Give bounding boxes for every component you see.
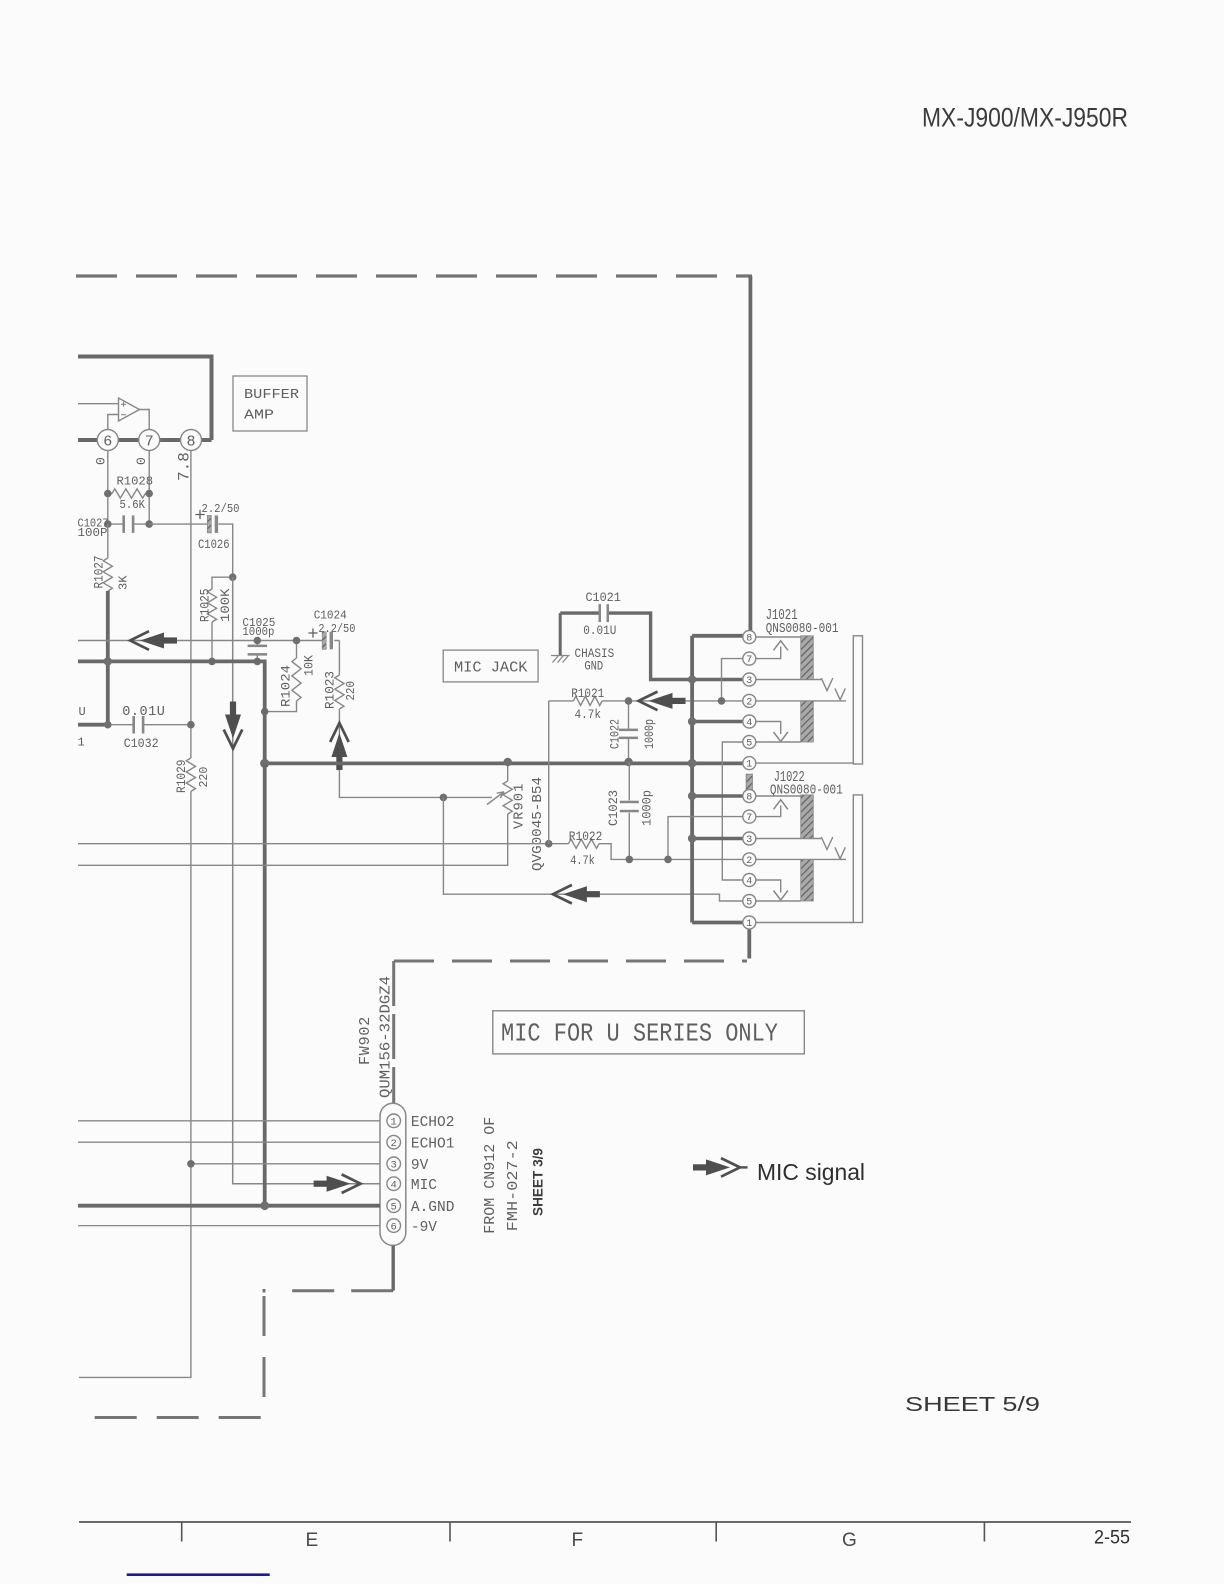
dashed boundary top bbox=[76, 274, 752, 277]
svg-text:R1023: R1023 bbox=[324, 671, 338, 709]
svg-text:R1025: R1025 bbox=[199, 589, 213, 623]
J1021 pin 3 contact line bbox=[756, 679, 822, 681]
svg-text:3: 3 bbox=[746, 835, 752, 846]
wire R1022 input line bbox=[78, 840, 569, 848]
J1021 jack contact bar lower bbox=[801, 701, 814, 742]
svg-text:8: 8 bbox=[746, 634, 752, 645]
wire VR wiper feed bbox=[443, 797, 743, 901]
svg-text:4.7k: 4.7k bbox=[570, 854, 595, 868]
footer page number 2-55 bbox=[1094, 1528, 1130, 1549]
svg-text:2.2/50: 2.2/50 bbox=[202, 502, 240, 516]
connector FW902 labels bbox=[357, 976, 395, 1098]
op-amp U1 (buffer) triangle bbox=[119, 398, 140, 421]
svg-text:0.01U: 0.01U bbox=[583, 624, 616, 638]
footer tick 4 bbox=[983, 1522, 985, 1542]
wire ECHO1 line bbox=[78, 1141, 380, 1143]
J1022 pin 1 contact line bbox=[756, 922, 854, 924]
FW902 pin 3 9V bbox=[387, 1157, 429, 1174]
svg-text:SHEET 5/9: SHEET 5/9 bbox=[905, 1394, 1040, 1416]
svg-text:MX-J900/MX-J950R: MX-J900/MX-J950R bbox=[922, 103, 1128, 133]
svg-text:3: 3 bbox=[391, 1160, 397, 1172]
svg-text:220: 220 bbox=[197, 767, 211, 788]
svg-text:A.GND: A.GND bbox=[411, 1200, 455, 1216]
J1021 pin 1 bbox=[743, 757, 756, 771]
svg-text:MIC FOR U SERIES ONLY: MIC FOR U SERIES ONLY bbox=[501, 1018, 778, 1048]
capacitor C1027 bbox=[78, 515, 154, 540]
svg-text:220: 220 bbox=[344, 681, 358, 701]
capacitor C1022 bbox=[608, 697, 657, 766]
svg-text:C1023: C1023 bbox=[606, 790, 621, 826]
label box MIC FOR U SERIES ONLY bbox=[493, 1011, 805, 1054]
IC pin 8 bbox=[181, 430, 202, 451]
svg-text:4: 4 bbox=[746, 718, 752, 729]
svg-text:-9V: -9V bbox=[411, 1220, 437, 1236]
svg-text:1: 1 bbox=[746, 919, 752, 930]
svg-text:ECHO2: ECHO2 bbox=[411, 1115, 455, 1131]
svg-text:C1022: C1022 bbox=[608, 719, 623, 749]
footer tick 3 bbox=[715, 1522, 717, 1542]
voltage label 0 at pin 6 bbox=[94, 457, 109, 465]
J1022 pin 7 bbox=[743, 810, 756, 824]
J1021 pin 3 rail link bbox=[688, 675, 743, 683]
wire pin 8 down (long vertical) bbox=[190, 451, 192, 759]
wire A.GND thick line bbox=[78, 1201, 380, 1210]
resistor R1024 bbox=[261, 637, 317, 716]
svg-text:7: 7 bbox=[145, 433, 154, 450]
thick vertical to A.GND bbox=[263, 763, 267, 1205]
J1022 jack sleeve bracket bbox=[853, 795, 862, 923]
svg-text:100K: 100K bbox=[219, 588, 233, 622]
resistor R1029 bbox=[175, 758, 211, 793]
svg-text:C1021: C1021 bbox=[586, 591, 621, 605]
signal arrow left (jack to R1021) bbox=[639, 692, 686, 711]
J1021 pin 7 switch arrow bbox=[756, 641, 788, 659]
J1022 jack break marks bbox=[821, 837, 845, 859]
svg-text:7: 7 bbox=[746, 655, 752, 666]
cut label fragment 1 bbox=[78, 736, 85, 750]
svg-text:R1024: R1024 bbox=[280, 665, 294, 707]
svg-text:10K: 10K bbox=[303, 655, 317, 676]
thick wire from top boundary to J1021 pin 8 bbox=[749, 276, 753, 631]
wire C1026 branch down (to MIC pin4) bbox=[233, 577, 380, 1183]
IC pin 6 bbox=[97, 430, 118, 451]
J1022 tie stub (hatched) bbox=[746, 774, 752, 790]
capacitor C1024 (electrolytic 2.2/50) bbox=[308, 609, 355, 650]
svg-text:FW902: FW902 bbox=[357, 1016, 374, 1065]
wire 9V line bbox=[187, 1160, 380, 1168]
J1021 pin 5 contact line bbox=[756, 741, 801, 743]
svg-text:2: 2 bbox=[746, 856, 752, 867]
IC pin 7 bbox=[139, 430, 160, 451]
svg-text:6: 6 bbox=[391, 1221, 397, 1233]
label SHEET 3/9 bbox=[530, 1148, 546, 1216]
label box BUFFER AMP bbox=[233, 376, 307, 431]
J1021 pin 3 bbox=[743, 673, 756, 687]
svg-text:R1029: R1029 bbox=[175, 760, 189, 794]
voltage label 7.8 at pin 8 bbox=[176, 452, 194, 481]
J1022 pin 5 contact line bbox=[756, 900, 801, 902]
svg-text:SHEET 3/9: SHEET 3/9 bbox=[530, 1148, 546, 1216]
svg-text:5: 5 bbox=[746, 898, 752, 909]
FW902 pin 1 ECHO2 bbox=[387, 1114, 455, 1131]
FW902 bottom stub bbox=[392, 1245, 395, 1290]
J1022 pin 3 contact line bbox=[756, 838, 822, 840]
svg-text:VR901: VR901 bbox=[512, 782, 527, 829]
label FROM CN912 OF bbox=[482, 1117, 499, 1234]
J1022 pin 4 switch arrow bbox=[756, 880, 788, 900]
svg-text:1000p: 1000p bbox=[242, 625, 274, 639]
svg-text:0.01U: 0.01U bbox=[122, 705, 165, 720]
J1022 pin 7 switch arrow bbox=[756, 800, 788, 817]
FW902 pin 6 -9V bbox=[387, 1219, 437, 1236]
capacitor C1025 bbox=[242, 616, 275, 665]
svg-text:9V: 9V bbox=[411, 1158, 429, 1174]
dashed boundary right of MIC block bbox=[394, 960, 747, 963]
junction node on MIC return line bbox=[440, 794, 448, 802]
capacitor C1032 bbox=[104, 705, 195, 751]
wire pin 7 down bbox=[148, 451, 150, 525]
dashed boundary below FW902 horizontal bbox=[288, 1289, 393, 1292]
footer tick 2 bbox=[449, 1522, 451, 1542]
FW902 pin 4 MIC bbox=[387, 1177, 437, 1194]
svg-text:1: 1 bbox=[78, 736, 85, 750]
capacitor C1023 bbox=[606, 762, 654, 863]
connector J1021 ground rail bbox=[690, 636, 694, 923]
svg-text:2.2/50: 2.2/50 bbox=[318, 622, 355, 636]
capacitor C1026 (electrolytic 2.2/50) bbox=[149, 502, 239, 577]
resistor R1027 bbox=[93, 524, 131, 591]
J1022 pin 8 bbox=[743, 790, 756, 804]
dashed boundary vertical above FW902 bbox=[392, 961, 395, 1103]
svg-text:1: 1 bbox=[391, 1117, 397, 1129]
svg-text:QVG0045-B54: QVG0045-B54 bbox=[531, 777, 546, 871]
svg-text:QUM156-32DGZ4: QUM156-32DGZ4 bbox=[378, 976, 395, 1098]
svg-text:8: 8 bbox=[186, 433, 195, 450]
svg-text:C1032: C1032 bbox=[124, 737, 159, 751]
svg-text:1000p: 1000p bbox=[639, 790, 654, 826]
dashed boundary vertical left bbox=[263, 1289, 266, 1418]
svg-text:2-55: 2-55 bbox=[1094, 1528, 1130, 1549]
footer zone label F bbox=[572, 1530, 584, 1551]
J1022 jack contact bar upper bbox=[801, 795, 814, 839]
blue underline mark bbox=[127, 1573, 270, 1576]
signal arrow left (MIC to VR) bbox=[553, 885, 600, 904]
svg-text:6: 6 bbox=[103, 433, 112, 450]
signal arrow down (to MIC out) bbox=[224, 702, 243, 749]
svg-text:G: G bbox=[842, 1530, 857, 1551]
resistor R1025 bbox=[199, 573, 237, 665]
svg-text:MIC: MIC bbox=[411, 1178, 437, 1194]
resistor R1023 bbox=[324, 641, 359, 710]
J1021 pin 5 bbox=[743, 736, 756, 750]
legend MIC signal arrow bbox=[693, 1158, 748, 1177]
footer rule bbox=[79, 1521, 1131, 1523]
svg-text:1: 1 bbox=[746, 760, 752, 771]
svg-text:MIC signal: MIC signal bbox=[757, 1159, 865, 1185]
J1022 pin 1 stub to boundary bbox=[747, 929, 751, 959]
J1021 pin 8 bbox=[743, 631, 756, 645]
footer tick 1 bbox=[181, 1522, 183, 1542]
svg-text:GND: GND bbox=[584, 659, 603, 673]
wire op-amp feedback to pin 6 bbox=[108, 415, 119, 430]
svg-text:100P: 100P bbox=[78, 527, 108, 540]
J1021 jack contact bar upper bbox=[801, 636, 814, 680]
wire op-amp input bbox=[78, 403, 119, 405]
svg-text:C1026: C1026 bbox=[198, 538, 230, 552]
signal arrow right (MIC into FW902) bbox=[314, 1174, 361, 1193]
svg-text:ECHO1: ECHO1 bbox=[411, 1136, 455, 1152]
wire R1023 bottom with MIC-signal up arrow bbox=[330, 709, 492, 797]
J1021 jack break marks bbox=[821, 678, 845, 700]
J1021 pin 8 contact line bbox=[756, 636, 801, 638]
svg-text:2: 2 bbox=[391, 1138, 397, 1150]
dashed boundary bottom bbox=[93, 1416, 261, 1419]
wire J1021 pin5 to J1022 pin4 bbox=[722, 742, 743, 880]
svg-text:C1024: C1024 bbox=[314, 609, 347, 623]
J1022 pin 8 contact line bbox=[756, 795, 801, 797]
wire -9V line bbox=[78, 1225, 380, 1227]
wire R1027 bottom thick to buses bbox=[78, 591, 108, 725]
svg-text:QNS0080-001: QNS0080-001 bbox=[766, 622, 839, 637]
J1021 rail/bus junction bbox=[688, 759, 697, 768]
connector J1022 labels bbox=[770, 769, 843, 799]
connector FW902 body bbox=[380, 1103, 406, 1245]
svg-text:0: 0 bbox=[94, 457, 109, 465]
svg-text:R1027: R1027 bbox=[93, 556, 107, 589]
svg-text:FMH-027-2: FMH-027-2 bbox=[505, 1140, 522, 1231]
J1021 pin 2 bbox=[743, 694, 756, 708]
J1022 pin 1 rail link bbox=[692, 921, 743, 925]
svg-text:5.6K: 5.6K bbox=[120, 498, 146, 512]
FW902 pin 5 A.GND bbox=[387, 1199, 455, 1216]
J1022 pin 5 bbox=[743, 895, 756, 909]
J1022 pin 4 bbox=[743, 874, 756, 888]
svg-text:5: 5 bbox=[391, 1202, 397, 1214]
resistor R1021 bbox=[549, 687, 743, 722]
J1021 pin 2 contact line bbox=[756, 700, 846, 702]
svg-text:3: 3 bbox=[746, 676, 752, 687]
wire J1021 pin7 to pin2 node bbox=[718, 659, 743, 705]
svg-text:E: E bbox=[306, 1530, 319, 1551]
svg-text:4: 4 bbox=[391, 1180, 397, 1192]
J1021 pin 7 bbox=[743, 652, 756, 666]
svg-text:R1021: R1021 bbox=[571, 687, 604, 701]
svg-text:5: 5 bbox=[746, 739, 752, 750]
page title text MX-J900/MX-J950R bbox=[922, 103, 1128, 133]
signal arrow left (buffer input) bbox=[130, 631, 177, 650]
svg-text:BUFFER: BUFFER bbox=[244, 387, 300, 403]
J1022 pin 3 rail link bbox=[688, 834, 743, 842]
svg-text:AMP: AMP bbox=[244, 408, 274, 424]
FW902 pin 2 ECHO1 bbox=[387, 1135, 455, 1152]
footer zone label E bbox=[306, 1530, 319, 1551]
J1022 pin 2 contact line bbox=[756, 858, 846, 860]
svg-text:4: 4 bbox=[746, 877, 752, 888]
wire R1021/R1022 vertical link bbox=[548, 701, 550, 844]
svg-text:3K: 3K bbox=[117, 575, 131, 590]
thick bus to jacks bbox=[260, 759, 743, 768]
J1021 pin 8 rail link bbox=[692, 634, 743, 638]
svg-text:U: U bbox=[79, 705, 86, 719]
wire op-amp output to pin 7 bbox=[140, 410, 150, 430]
J1021 jack sleeve bracket bbox=[853, 636, 862, 764]
svg-text:8: 8 bbox=[746, 793, 752, 804]
wire J1022 pin7 to R1022 line bbox=[664, 817, 743, 864]
J1022 pin 3 bbox=[743, 832, 756, 846]
J1022 pin 8 rail link bbox=[688, 792, 743, 800]
svg-text:1000p: 1000p bbox=[642, 719, 657, 749]
wire R1029 down to lower left bbox=[79, 791, 191, 1377]
J1022 pin 2 bbox=[743, 853, 756, 867]
thick bus upper (signal gnd) bbox=[78, 657, 265, 763]
svg-text:2: 2 bbox=[746, 698, 752, 709]
J1022 jack contact bar lower bbox=[801, 859, 814, 901]
svg-text:0: 0 bbox=[134, 457, 149, 465]
J1021 pin 4 bbox=[743, 715, 756, 729]
resistor R1028 bbox=[104, 475, 153, 513]
wire ECHO2 line bbox=[78, 1120, 380, 1122]
cut label fragment U bbox=[79, 705, 86, 719]
signal line with C1025/R1024/C1024 bbox=[78, 640, 339, 642]
IC block outline (buffer amp IC, cut at page edge) bbox=[78, 357, 212, 441]
wire pin 6 down bbox=[107, 451, 109, 525]
capacitor C1021 with chassis ground bbox=[551, 591, 692, 680]
J1021 pin 4 switch arrow bbox=[756, 722, 788, 742]
svg-text:MIC JACK: MIC JACK bbox=[454, 660, 528, 677]
svg-text:7: 7 bbox=[746, 813, 752, 824]
label box MIC JACK bbox=[443, 650, 538, 682]
connector J1021 labels bbox=[766, 607, 839, 637]
J1021 pin 1 contact line bbox=[756, 762, 854, 764]
label FMH-027-2 bbox=[505, 1140, 522, 1231]
resistor R1022 bbox=[569, 830, 744, 868]
svg-text:F: F bbox=[572, 1530, 584, 1551]
J1021 pin 4 rail link bbox=[688, 717, 743, 725]
svg-text:4.7k: 4.7k bbox=[575, 708, 602, 722]
svg-text:R1028: R1028 bbox=[117, 475, 154, 489]
voltage label 0 at pin 7 bbox=[134, 457, 149, 465]
legend text MIC signal bbox=[757, 1159, 865, 1185]
sheet number text bbox=[905, 1394, 1040, 1416]
footer zone label G bbox=[842, 1530, 857, 1551]
J1022 pin 1 bbox=[743, 916, 756, 930]
potentiometer VR901 bbox=[78, 758, 546, 871]
svg-text:FROM CN912 OF: FROM CN912 OF bbox=[482, 1117, 499, 1234]
svg-text:R1022: R1022 bbox=[569, 830, 603, 844]
